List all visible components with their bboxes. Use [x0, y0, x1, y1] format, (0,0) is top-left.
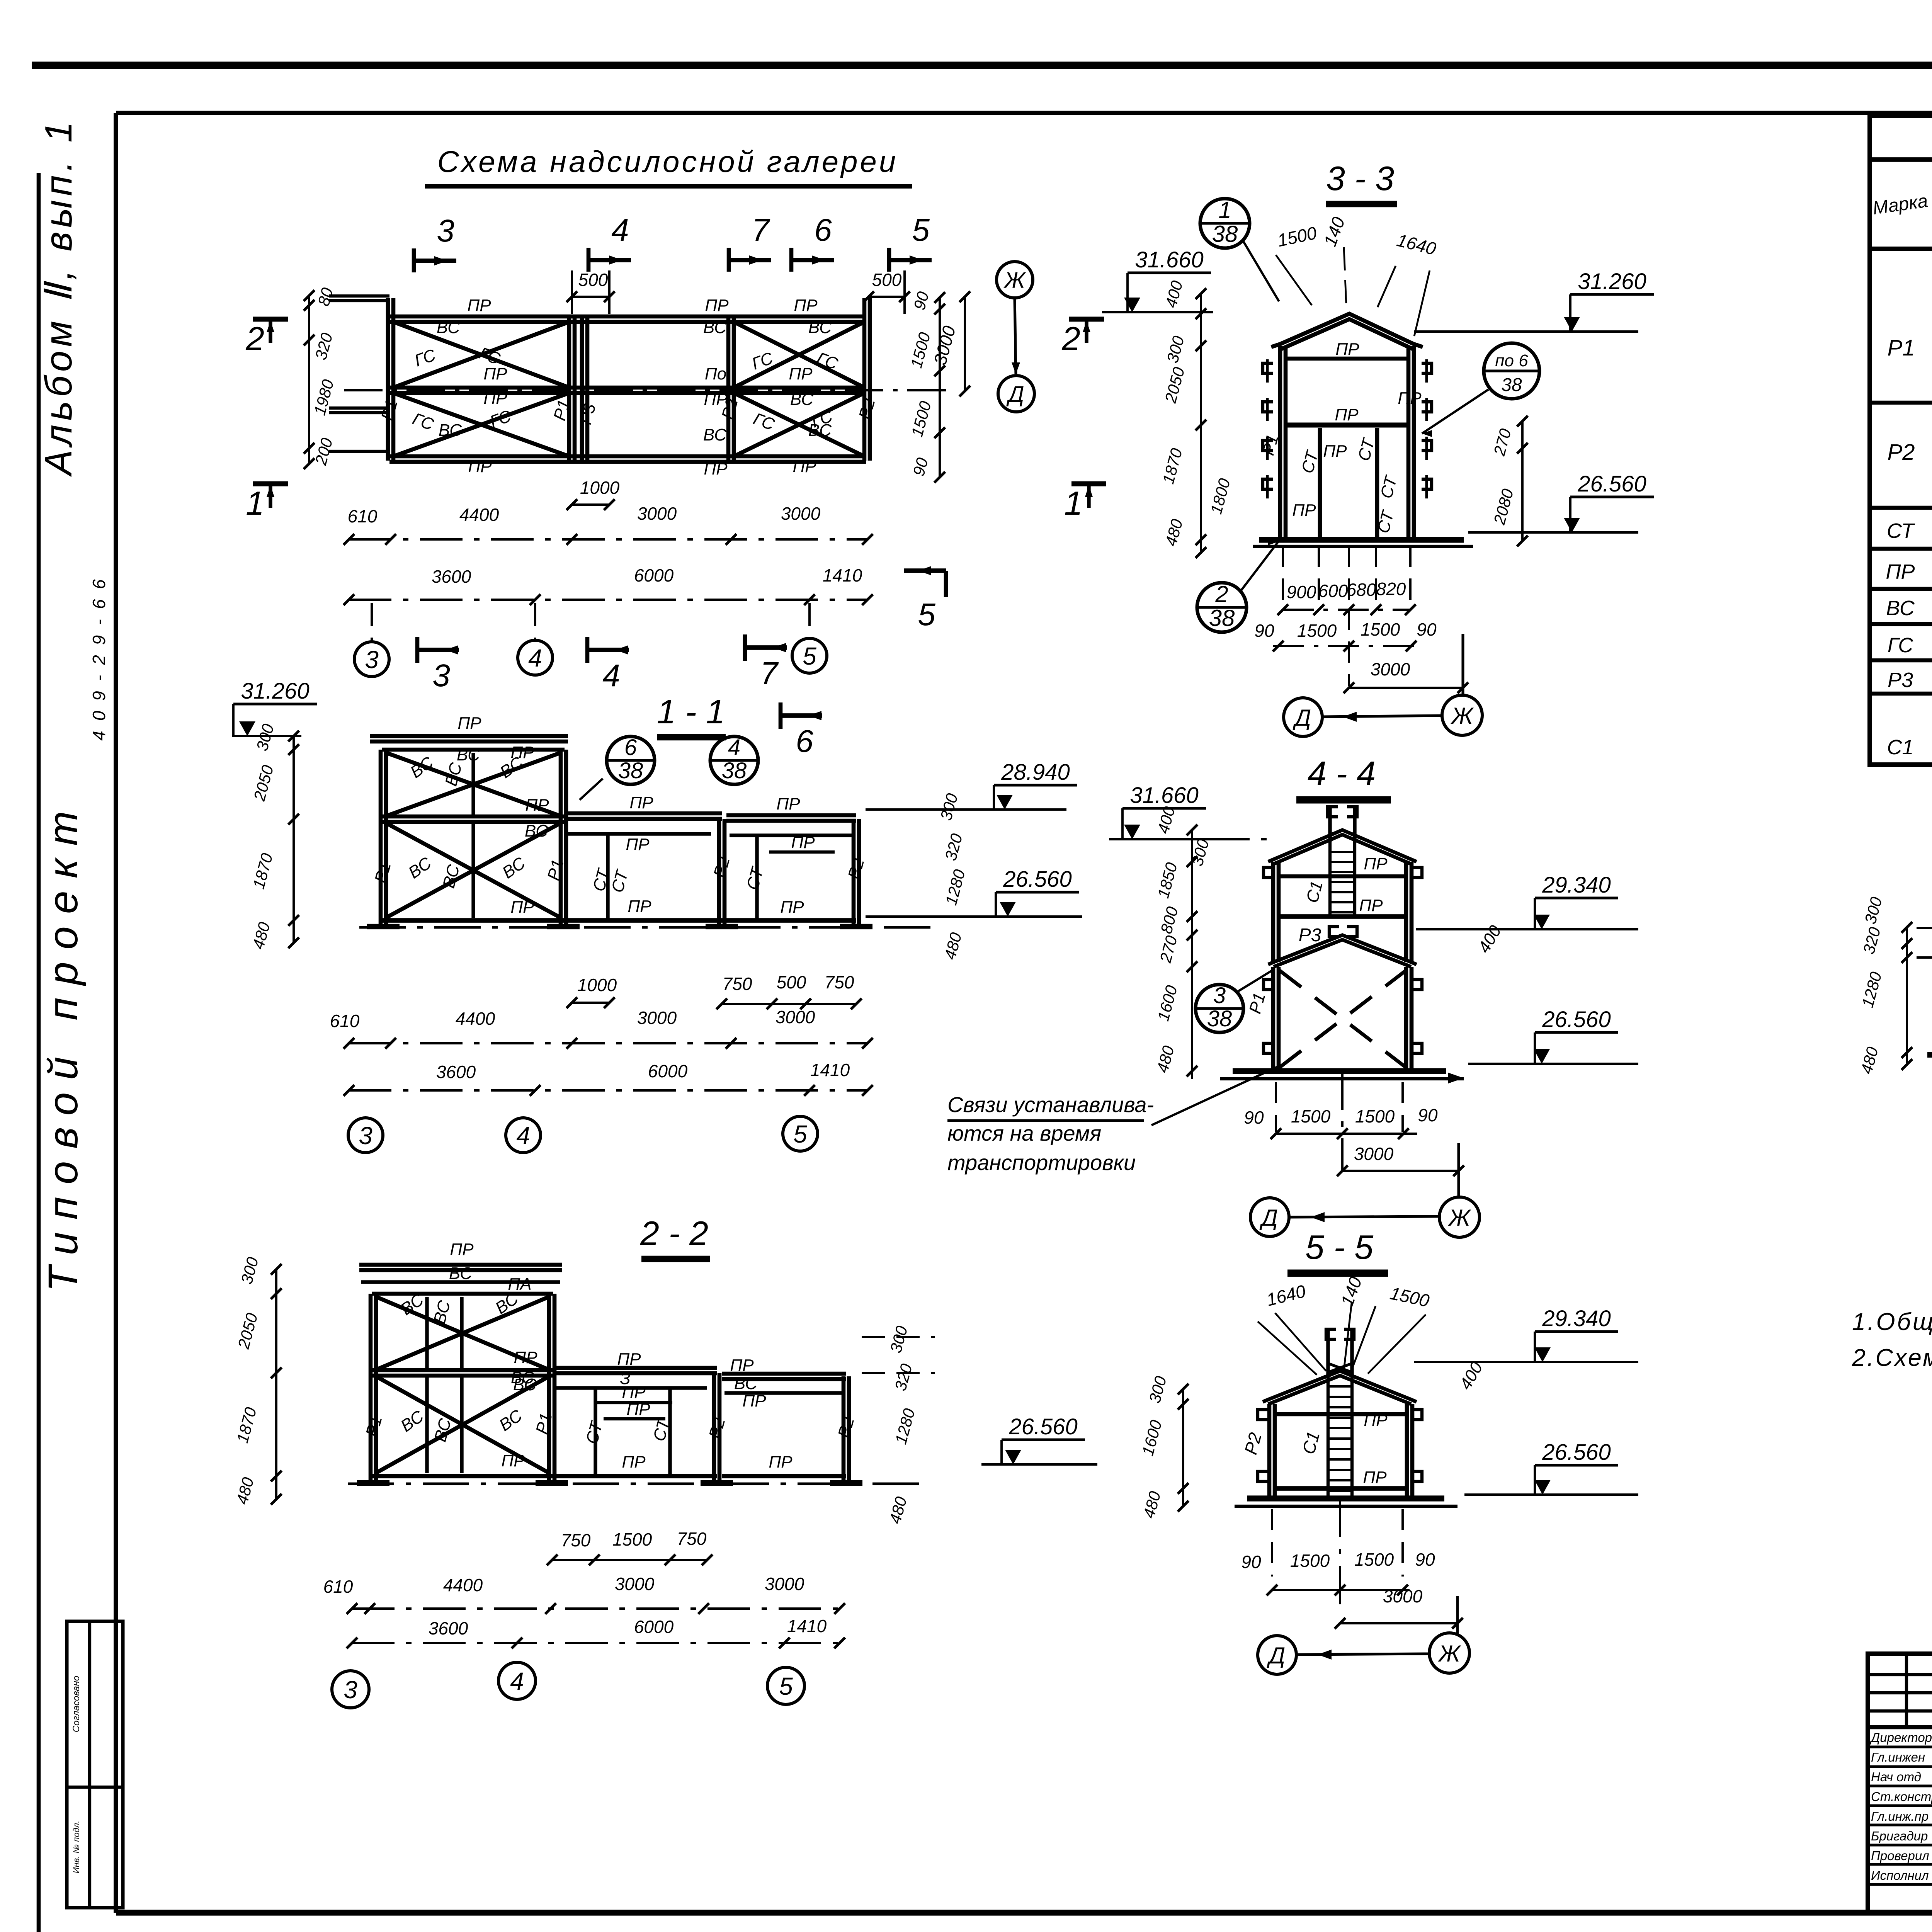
plan column R2: [726, 317, 731, 461]
table column header row: [1870, 247, 1932, 251]
svg-text:600: 600: [1318, 581, 1348, 601]
svg-text:3600: 3600: [429, 1618, 468, 1638]
svg-text:Связи устанавлива-: Связи устанавлива-: [947, 1092, 1154, 1117]
svg-text:6: 6: [624, 735, 637, 760]
plan X bracing GS left bay lower: [393, 393, 569, 456]
section 3-3 axis bubble D: [1284, 698, 1322, 736]
svg-text:ПР: ПР: [730, 1356, 754, 1375]
svg-text:Р3: Р3: [1299, 925, 1321, 946]
svg-text:Р1: Р1: [532, 1411, 556, 1436]
svg-text:270: 270: [1156, 934, 1181, 965]
svg-text:28.940: 28.940: [1001, 760, 1070, 785]
svg-text:СТ: СТ: [582, 1418, 607, 1446]
svg-text:ПР: ПР: [1335, 340, 1359, 359]
svg-text:ПР: ПР: [510, 898, 534, 917]
svg-text:1 - 1: 1 - 1: [657, 692, 725, 731]
svg-text:3000: 3000: [781, 503, 821, 524]
section 3-3 bottom extension lines: [1282, 546, 1284, 609]
section 1-1 grid bubble 3: [348, 1118, 383, 1153]
svg-text:С1: С1: [1298, 1429, 1323, 1456]
svg-text:Р2: Р2: [1240, 1430, 1265, 1457]
svg-text:1800: 1800: [1207, 476, 1234, 516]
section 4-4 axis connector: [1290, 1216, 1438, 1217]
section 1-1 mid chord PR: [382, 815, 565, 819]
svg-text:320: 320: [311, 331, 336, 362]
svg-text:ВС: ВС: [442, 760, 466, 788]
svg-text:ПР: ПР: [776, 794, 800, 813]
svg-text:ПР: ПР: [704, 459, 728, 478]
svg-text:2: 2: [1061, 320, 1080, 357]
section 1-1 right span beams second: [726, 813, 856, 818]
section 5-5 bottom extensions: [1271, 1509, 1273, 1577]
svg-text:1410: 1410: [810, 1060, 850, 1080]
svg-text:3000: 3000: [1354, 1144, 1394, 1164]
section 3-3 column left: [1278, 346, 1282, 540]
section 3-3 beam PR upper: [1287, 357, 1408, 361]
plan axis bubble Zh: [997, 262, 1033, 298]
svg-text:38: 38: [722, 758, 747, 783]
svg-text:3000: 3000: [1371, 659, 1410, 679]
svg-text:Директор: Директор: [1869, 1730, 1932, 1745]
plan axis bubble D: [998, 376, 1034, 412]
svg-text:ПР: ПР: [1886, 560, 1915, 583]
svg-text:ПР: ПР: [483, 389, 507, 408]
svg-text:4400: 4400: [443, 1575, 483, 1595]
svg-text:Р1: Р1: [544, 857, 567, 883]
svg-text:6000: 6000: [634, 565, 674, 585]
section 5-5 chimney: [1326, 1329, 1330, 1376]
section 5-5 beam PR lower: [1276, 1486, 1406, 1491]
svg-text:ВС: ВС: [437, 318, 460, 337]
section 2-2 bottom chord right second: [722, 1474, 846, 1478]
svg-text:ПР: ПР: [617, 1350, 641, 1369]
section 4-4 ladder S1: [1328, 842, 1332, 917]
section 1-1 column R1 left: [379, 750, 383, 925]
section 5-5 left dims: [1182, 1389, 1184, 1506]
svg-text:Нач отд: Нач отд: [1871, 1770, 1921, 1784]
section 4-4 lower roof gable R3: [1268, 935, 1417, 964]
svg-text:3000: 3000: [637, 503, 677, 524]
svg-text:1870: 1870: [1159, 446, 1186, 486]
svg-text:3: 3: [359, 1122, 372, 1150]
svg-text:ВС: ВС: [496, 1406, 526, 1435]
svg-text:ГС: ГС: [412, 345, 439, 371]
svg-text:610: 610: [323, 1577, 353, 1597]
section 1-1 column R2 right: [852, 819, 856, 925]
svg-text:500: 500: [777, 972, 806, 992]
svg-text:480: 480: [1153, 1044, 1178, 1075]
svg-text:Ж: Ж: [1003, 268, 1026, 293]
svg-text:ВС: ВС: [1886, 597, 1915, 620]
section 3-3 beam PR mid: [1287, 423, 1408, 428]
svg-text:1000: 1000: [580, 478, 620, 498]
plan mid beam centerline: [344, 389, 951, 391]
svg-text:5: 5: [918, 597, 935, 632]
section 2-2 right span beams first: [553, 1366, 717, 1370]
section 4-4 beam PR mid: [1280, 914, 1406, 919]
svg-text:26.560: 26.560: [1577, 471, 1646, 497]
svg-text:3000: 3000: [615, 1574, 655, 1594]
section 2-2 bottom chord PR: [372, 1474, 553, 1478]
section 2-2 ground line: [348, 1482, 927, 1485]
svg-text:6: 6: [796, 724, 813, 759]
svg-text:ПР: ПР: [629, 793, 653, 812]
plan bottom section marker 4: [585, 637, 590, 663]
svg-text:1: 1: [1064, 485, 1083, 522]
svg-text:26.560: 26.560: [1542, 1440, 1611, 1465]
svg-text:7: 7: [760, 656, 779, 691]
svg-text:ПР: ПР: [1335, 405, 1359, 424]
svg-text:Р1: Р1: [378, 398, 401, 423]
svg-text:2 - 2: 2 - 2: [640, 1214, 708, 1252]
svg-text:ПР: ПР: [501, 1451, 525, 1470]
plan bottom section marker 7: [743, 634, 747, 661]
section 2-2 inner PR lines: [597, 1401, 672, 1404]
section 3-3 detail bubble 2/38: [1197, 583, 1247, 632]
section 4-4 left dims: [1191, 830, 1193, 1079]
section 1-1 bottom chord PR: [382, 918, 565, 923]
sidebar stamp table: [67, 1621, 123, 1908]
svg-text:400: 400: [1456, 1359, 1486, 1393]
svg-text:300: 300: [937, 791, 961, 822]
svg-text:СТ: СТ: [608, 867, 632, 895]
svg-text:5: 5: [793, 1120, 807, 1148]
svg-text:ПР: ПР: [1359, 896, 1383, 915]
svg-text:ПР: ПР: [483, 364, 507, 383]
svg-text:5: 5: [803, 642, 816, 670]
svg-text:3 - 3: 3 - 3: [1326, 159, 1394, 197]
svg-text:1280: 1280: [1858, 969, 1885, 1009]
svg-text:1: 1: [1218, 197, 1231, 223]
svg-text:Р1: Р1: [1888, 335, 1915, 361]
svg-text:6: 6: [814, 213, 832, 248]
svg-text:Согласовано: Согласовано: [71, 1676, 82, 1732]
svg-text:Типовой проект: Типовой проект: [39, 799, 86, 1292]
svg-text:Гл.инж.пр: Гл.инж.пр: [1871, 1809, 1929, 1823]
svg-text:4: 4: [510, 1667, 524, 1695]
svg-text:4: 4: [602, 658, 620, 693]
plan grid bubble 5: [808, 603, 811, 638]
svg-text:2080: 2080: [1490, 486, 1517, 527]
svg-text:90: 90: [1415, 1549, 1435, 1570]
svg-text:ВС: ВС: [430, 1298, 454, 1326]
svg-text:ПР: ПР: [793, 457, 816, 476]
sheet outer left edge: [37, 173, 41, 1932]
table vedomost outer: [1870, 116, 1932, 765]
frame left line: [114, 113, 118, 1913]
svg-text:С1: С1: [1887, 736, 1913, 759]
section 2-2 grid bubble 3: [332, 1671, 369, 1708]
svg-text:3000: 3000: [1383, 1586, 1423, 1606]
svg-text:3: 3: [432, 658, 450, 693]
svg-text:1: 1: [246, 485, 264, 522]
svg-text:4: 4: [516, 1122, 530, 1150]
svg-text:Д: Д: [1293, 705, 1311, 731]
svg-text:2: 2: [1215, 581, 1228, 607]
svg-text:140: 140: [1320, 214, 1349, 249]
svg-text:90: 90: [1244, 1107, 1264, 1128]
plan bottom section marker 6: [779, 702, 783, 729]
section 2-2 top chord: [372, 1292, 553, 1296]
section 5-5 columns R2: [1267, 1404, 1272, 1498]
section 5-5 axis bubble Zh: [1429, 1633, 1469, 1673]
svg-text:1500: 1500: [612, 1529, 652, 1549]
svg-text:ПР: ПР: [705, 296, 729, 315]
section 3-3 right dims 270 2080: [1521, 421, 1524, 541]
svg-text:ГС: ГС: [814, 349, 841, 374]
svg-text:ВС: ВС: [407, 753, 437, 782]
plan bottom chord beam PR: [389, 454, 866, 459]
section 4-4 upper roof gable: [1268, 830, 1417, 862]
svg-text:480: 480: [940, 930, 965, 961]
sheet outer top edge: [32, 62, 1932, 69]
section 1-1 upper panel bracing VS: [386, 753, 561, 816]
svg-text:4400: 4400: [456, 1009, 495, 1029]
svg-text:38: 38: [618, 758, 643, 783]
svg-text:ПР: ПР: [626, 1400, 650, 1419]
section 2-2 upper panel bracing VS: [376, 1297, 549, 1370]
svg-text:400: 400: [1162, 279, 1186, 310]
section 3-3 bracket marks: [1263, 363, 1273, 373]
svg-text:ПР: ПР: [622, 1383, 646, 1402]
svg-text:29.340: 29.340: [1542, 1306, 1611, 1331]
section 3-3 axis connector: [1323, 716, 1441, 717]
svg-text:Проверил: Проверил: [1871, 1849, 1929, 1863]
svg-text:3600: 3600: [436, 1062, 476, 1082]
section 5-5 axis connector: [1297, 1654, 1430, 1655]
svg-text:3: 3: [437, 213, 454, 248]
title block signature table minigrid: [1868, 1673, 1932, 1676]
section 4-4 lower bracing dashed: [1280, 971, 1406, 1067]
svg-text:3000: 3000: [637, 1008, 677, 1028]
plan left dims 80 320 1980 200: [308, 296, 310, 464]
svg-text:409-29-66: 409-29-66: [89, 569, 109, 741]
section 4-4 bottom extensions: [1275, 1082, 1277, 1132]
plan right dim 3000: [964, 297, 966, 391]
svg-text:2050: 2050: [234, 1311, 261, 1351]
section 1-1 grid bubble 4: [506, 1118, 541, 1153]
svg-text:ются на время: ются на время: [947, 1121, 1101, 1145]
section 2-2 column R1 right: [547, 1294, 551, 1482]
svg-text:Д: Д: [1259, 1205, 1278, 1231]
svg-text:СТ: СТ: [1354, 435, 1379, 463]
plan axis connector: [1015, 298, 1016, 374]
svg-text:300: 300: [886, 1324, 911, 1355]
svg-text:29.340: 29.340: [1542, 872, 1611, 898]
section 5-5 roof gable: [1263, 1371, 1417, 1402]
svg-text:Марка: Марка: [1871, 190, 1929, 218]
svg-text:3: 3: [344, 1676, 357, 1704]
section 5-5 base line: [1247, 1495, 1444, 1501]
section 3-3 column right: [1406, 346, 1411, 540]
svg-text:ПР: ПР: [525, 796, 549, 815]
svg-text:2: 2: [245, 320, 264, 357]
section 4-4 chimney top: [1328, 807, 1332, 842]
svg-text:По: По: [705, 364, 726, 383]
svg-text:90: 90: [909, 456, 932, 478]
svg-text:680: 680: [1347, 580, 1376, 600]
svg-text:СТ: СТ: [1377, 473, 1401, 500]
section 4-4 brackets: [1264, 867, 1274, 878]
svg-text:ПР: ПР: [626, 835, 650, 854]
frame top line: [116, 111, 1932, 115]
svg-text:Р2: Р2: [834, 1415, 858, 1440]
svg-text:С1: С1: [1303, 879, 1327, 905]
svg-text:Р1: Р1: [371, 860, 395, 885]
svg-text:1500: 1500: [1290, 1551, 1330, 1571]
svg-text:3: 3: [1213, 983, 1226, 1008]
svg-text:90: 90: [1254, 621, 1274, 641]
svg-text:1850: 1850: [1154, 860, 1181, 900]
section 1-1 detail bubble 4/38: [710, 736, 758, 784]
svg-text:3000: 3000: [765, 1574, 804, 1594]
svg-text:ВС: ВС: [790, 390, 814, 409]
section 1-1 lower panel bracing VS: [386, 823, 561, 918]
svg-text:610: 610: [348, 506, 378, 526]
svg-text:320: 320: [1859, 925, 1884, 956]
svg-text:1600: 1600: [1154, 983, 1181, 1023]
section 3-3 detail bubble 1/38: [1200, 199, 1250, 248]
section 1-1 ground line: [359, 926, 939, 929]
svg-text:6000: 6000: [634, 1617, 674, 1637]
svg-text:500: 500: [872, 270, 902, 290]
svg-text:750: 750: [723, 974, 752, 994]
svg-text:ПР: ПР: [1323, 442, 1347, 461]
svg-text:90: 90: [1418, 1105, 1438, 1125]
section 4-4 upper columns: [1271, 862, 1276, 962]
plan grid bubble 4: [534, 603, 536, 641]
svg-text:480: 480: [249, 920, 274, 951]
section 2-2 mid chord PR: [372, 1368, 553, 1372]
svg-text:31.260: 31.260: [1578, 269, 1646, 294]
section 3-3 detail bubble po 6/38: [1484, 343, 1539, 399]
svg-text:3: 3: [365, 646, 379, 673]
svg-text:Р2: Р2: [1888, 440, 1915, 465]
svg-text:820: 820: [1376, 579, 1406, 599]
svg-text:1640: 1640: [1395, 230, 1438, 259]
svg-text:26.560: 26.560: [1542, 1007, 1611, 1032]
section 2-2 grid bubble 4: [498, 1662, 536, 1699]
section 1-1 top chord VS: [382, 748, 565, 752]
svg-text:1500: 1500: [1354, 1549, 1394, 1570]
svg-text:1410: 1410: [823, 565, 862, 585]
section 3-3 base: [1259, 537, 1464, 543]
svg-text:ВС: ВС: [525, 821, 548, 840]
section 1-1 column R1 right: [559, 750, 563, 925]
section 4-4 detail bubble 3/38: [1196, 985, 1243, 1032]
svg-text:ПР: ПР: [1363, 1468, 1387, 1487]
section 2-2 bottom chord right first: [553, 1474, 717, 1478]
section 3-3 posts ST: [1318, 428, 1322, 540]
section 4-4 base line: [1233, 1068, 1446, 1074]
plan X bracing GS right bay upper: [734, 322, 864, 388]
svg-text:ГС: ГС: [410, 409, 437, 434]
section 2-2 grid bubble 5: [767, 1667, 804, 1704]
svg-text:ПР: ПР: [514, 1348, 537, 1367]
plan column pair at grid 4: [567, 317, 571, 461]
svg-text:ПР: ПР: [1292, 501, 1316, 520]
svg-text:38: 38: [1209, 605, 1235, 631]
svg-text:Р1: Р1: [362, 1414, 386, 1439]
svg-text:ПР: ПР: [628, 897, 651, 916]
svg-text:90: 90: [1417, 619, 1437, 639]
svg-text:1000: 1000: [577, 975, 617, 995]
svg-text:ПР: ПР: [742, 1391, 766, 1410]
svg-text:ВС: ВС: [734, 1374, 758, 1393]
svg-text:26.560: 26.560: [1009, 1414, 1077, 1439]
svg-text:ВС: ВС: [703, 425, 727, 444]
plan right dims 90 1500 1500 90: [939, 298, 941, 477]
svg-text:1500: 1500: [1297, 621, 1337, 641]
plan column right end: [862, 298, 867, 461]
section 3-3 roof gable: [1271, 314, 1423, 347]
section 4-4 beam PR upper: [1280, 874, 1406, 879]
plan column R1 left: [386, 298, 390, 461]
svg-text:38: 38: [1212, 221, 1238, 247]
plan left stub beams: [329, 294, 389, 298]
svg-text:1280: 1280: [891, 1406, 918, 1446]
svg-text:Бригадир: Бригадир: [1871, 1829, 1928, 1843]
svg-text:4: 4: [728, 735, 740, 760]
svg-text:ВС: ВС: [439, 862, 464, 890]
svg-text:ПР: ПР: [467, 296, 491, 315]
svg-text:Р2: Р2: [705, 1416, 729, 1441]
plan X bracing GS right bay lower: [734, 393, 864, 456]
svg-text:ПР: ПР: [791, 833, 815, 852]
svg-text:ПР: ПР: [794, 296, 818, 315]
svg-text:4: 4: [611, 213, 629, 248]
section 2-2 right span beams second: [722, 1372, 846, 1376]
svg-text:750: 750: [677, 1529, 707, 1549]
section 5-5 axis bubble D: [1258, 1636, 1296, 1674]
title block signature rows: [1868, 1745, 1932, 1748]
svg-text:Ст.констр: Ст.констр: [1871, 1789, 1932, 1804]
svg-text:31.660: 31.660: [1130, 783, 1198, 808]
svg-text:4400: 4400: [459, 505, 499, 525]
svg-text:300: 300: [1145, 1374, 1170, 1405]
svg-text:Д: Д: [1267, 1643, 1285, 1668]
svg-text:Ж: Ж: [1447, 1205, 1471, 1231]
svg-text:480: 480: [1139, 1489, 1164, 1520]
svg-text:3000: 3000: [776, 1007, 815, 1027]
section 1-1 column R2 mid: [717, 819, 721, 925]
svg-text:1600: 1600: [1138, 1418, 1165, 1458]
plan view marker 2 right: [1069, 317, 1104, 322]
svg-text:6000: 6000: [648, 1061, 688, 1081]
svg-text:по 6: по 6: [1495, 351, 1528, 370]
svg-text:ВС: ВС: [405, 853, 435, 882]
section 4-4 axis bubble Zh: [1439, 1197, 1480, 1237]
svg-text:31.660: 31.660: [1135, 247, 1203, 272]
section 5-5 ladder S1: [1327, 1376, 1330, 1498]
svg-text:ПР: ПР: [769, 1452, 793, 1471]
svg-text:ВС: ВС: [449, 1264, 473, 1283]
svg-text:5 - 5: 5 - 5: [1305, 1228, 1374, 1266]
svg-text:1500: 1500: [1388, 1283, 1431, 1311]
svg-text:750: 750: [825, 972, 854, 992]
svg-text:4 - 4: 4 - 4: [1308, 754, 1376, 793]
svg-text:7: 7: [752, 213, 770, 248]
section 2-2 column R2 mid: [712, 1373, 716, 1482]
plan view marker 1 left: [253, 481, 288, 486]
svg-text:300: 300: [237, 1255, 262, 1286]
frame bottom line: [116, 1910, 1932, 1915]
svg-text:Исполнил: Исполнил: [1871, 1868, 1929, 1883]
svg-text:2050: 2050: [250, 763, 277, 803]
svg-text:Р1: Р1: [1245, 991, 1269, 1016]
svg-text:ВС: ВС: [703, 318, 727, 337]
svg-text:320: 320: [941, 832, 966, 862]
